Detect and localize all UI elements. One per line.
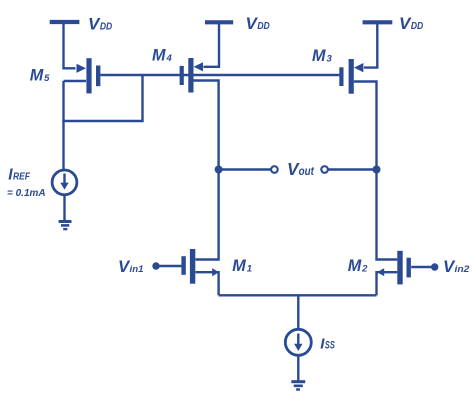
svg-text:ISS: ISS [320,336,335,353]
wire ISS to ground [297,355,299,381]
current source IREF arrow [63,174,65,185]
wire M2 source stub with arrow [377,272,398,295]
wire tail rail [219,294,377,296]
svg-text:Vin2: Vin2 [443,257,470,276]
svg-text:M3: M3 [312,47,332,65]
wire VDD3 stem to M3 source arrow [364,23,377,68]
wire tail tap to ISS [297,295,299,329]
transistor M5 channel bar [86,58,91,93]
wire M2 gate lead [411,266,435,268]
svg-text:= 0.1mA: = 0.1mA [7,188,46,199]
transistor M5 gate bar [96,66,100,87]
svg-text:M4: M4 [152,46,172,64]
current source ISS circle [285,329,311,355]
svg-text:VDD: VDD [399,14,424,33]
svg-text:Vin1: Vin1 [118,257,144,276]
wire Vout left [219,168,271,170]
wire M4 drain stub to left output rail [194,81,219,170]
transistor M5 source arrowhead [77,64,87,73]
VDD supply 1 bar [50,20,80,24]
current source IREF circle [52,170,77,195]
svg-text:IREF: IREF [8,166,31,183]
node Vout junction dot left [215,166,223,174]
transistor M3 channel bar [349,59,354,94]
wire M1 gate lead [156,265,181,267]
wire M5 drain stub [64,80,87,82]
transistor M4 gate bar [180,66,184,85]
VDD supply 3 bar [363,20,393,24]
wire gate line M5-M4-M3 [100,74,339,76]
node Vin1 terminal dot [152,262,159,269]
transistor M1 gate bar [181,256,185,275]
svg-text:M1: M1 [232,257,252,275]
transistor M1 source arrowhead [212,268,219,276]
wire left rail to M1 drain [195,170,218,260]
ground symbol 1 [59,220,72,223]
wire VDD2 stem to M4 source arrow [204,23,220,67]
node Vout open terminal left [271,166,278,173]
svg-text:VDD: VDD [88,14,113,33]
svg-text:M5: M5 [30,67,50,85]
transistor M3 source arrowhead [354,63,363,72]
wire Vout right [328,168,376,170]
ground symbol 2 [291,380,305,383]
wire M5 drain to IREF [62,120,64,170]
node Vout open terminal right [321,166,328,173]
wire M3 drain stub to right output rail [354,82,377,170]
svg-text:Vout: Vout [287,159,315,179]
transistor M2 gate bar [407,258,411,278]
VDD supply 2 bar [205,20,233,24]
transistor M2 channel bar [397,251,402,285]
wire right rail to M2 drain [377,170,398,260]
transistor M3 gate bar [339,67,343,86]
node Vout junction dot right [373,166,381,174]
svg-text:VDD: VDD [246,14,271,33]
wire IREF to ground [63,195,65,221]
wire M5 diode connection loop [64,75,143,121]
transistor M4 source arrowhead [194,62,203,71]
wire M1 source stub with arrow [196,272,219,295]
transistor M4 channel bar [188,58,193,93]
svg-text:M2: M2 [348,257,368,275]
current source ISS arrow [297,334,299,345]
transistor M1 channel bar [190,249,195,284]
node Vin2 terminal dot [431,263,438,270]
transistor M2 source arrowhead [377,268,384,276]
wire VDD1 stem to M5 drain [64,23,76,68]
